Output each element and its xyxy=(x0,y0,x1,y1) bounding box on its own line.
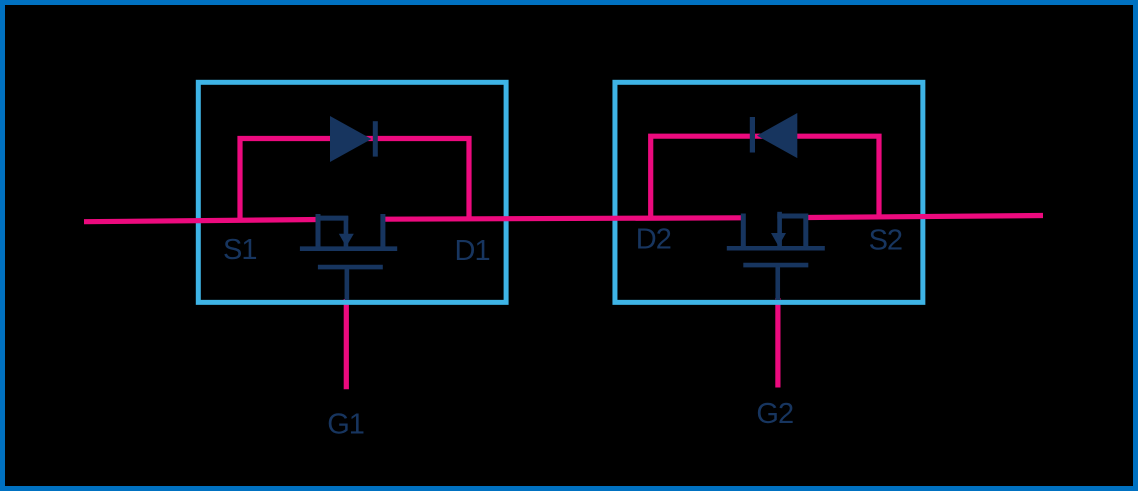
enclosure box around M1 xyxy=(198,82,506,302)
wire: gate lead G1 (pink, below box) xyxy=(344,299,349,389)
M1 arrow head xyxy=(339,234,354,247)
pin label G1 xyxy=(327,408,364,440)
svg-text:D2: D2 xyxy=(636,224,671,256)
pin label G2 xyxy=(756,398,793,430)
wire: main horizontal net, middle segment (D1 to D2) xyxy=(383,218,742,219)
body diode D1 symbol xyxy=(330,116,378,162)
M2 loop top horizontal xyxy=(777,214,807,219)
M2 drain stub xyxy=(741,214,746,249)
pin label S1 xyxy=(223,234,256,266)
wire: body-diode D1 loop xyxy=(240,139,469,221)
body diode D2 symbol xyxy=(750,113,798,158)
M2 gate lead (navy, inside box) xyxy=(775,265,780,300)
MOSFET M1 xyxy=(300,214,397,300)
wire: gate lead G2 (pink, below box) xyxy=(775,298,780,388)
pin label D1 xyxy=(455,235,490,267)
M1 arrow drop xyxy=(344,216,349,248)
M1 loop top horizontal xyxy=(316,216,349,221)
M1 source stub xyxy=(316,214,321,249)
M1 channel bar xyxy=(300,246,397,251)
M2 channel bar xyxy=(727,246,825,251)
wire: main horizontal net, right segment (from S2) xyxy=(807,216,1044,218)
svg-text:G2: G2 xyxy=(756,398,793,430)
M2 arrow drop xyxy=(777,212,782,247)
M1 gate bar xyxy=(318,265,383,270)
MOSFET M2 xyxy=(727,212,825,300)
svg-text:D1: D1 xyxy=(455,235,490,267)
pin label S2 xyxy=(869,225,902,257)
M2 arrow head xyxy=(771,233,786,246)
enclosure box around M2 xyxy=(615,82,923,302)
wire: body-diode D2 loop xyxy=(651,136,879,218)
svg-text:S1: S1 xyxy=(223,234,256,266)
svg-text:G1: G1 xyxy=(327,408,364,440)
wire: main horizontal net, left segment (to S1) xyxy=(84,220,321,222)
pin label D2 xyxy=(636,224,671,256)
M1 drain stub xyxy=(380,214,385,249)
M2 gate bar xyxy=(743,263,808,268)
svg-text:S2: S2 xyxy=(869,225,902,257)
M1 gate lead (navy, inside box) xyxy=(345,267,350,300)
M2 source stub xyxy=(803,214,808,249)
